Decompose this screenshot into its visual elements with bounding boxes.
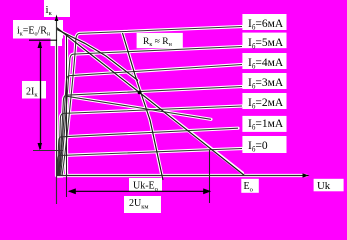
svg-text:iк=Eо/Rн: iк=Eо/Rн [17, 26, 51, 38]
svg-text:Rк ≈ Rн: Rк ≈ Rн [143, 37, 173, 48]
svg-text:Uk-Eо: Uk-Eо [133, 181, 158, 194]
svg-text:Iб=0: Iб=0 [248, 140, 268, 154]
svg-text:Uk: Uk [317, 180, 331, 192]
